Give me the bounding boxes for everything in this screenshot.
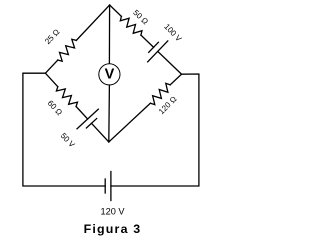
svg-text:120 V: 120 V xyxy=(100,207,125,217)
resistor 120Ω xyxy=(150,83,170,104)
wire xyxy=(141,35,154,47)
wire xyxy=(92,123,109,142)
wire xyxy=(76,107,88,120)
battery 100V xyxy=(148,41,168,62)
svg-text:25 Ω: 25 Ω xyxy=(43,27,61,46)
svg-text:V: V xyxy=(105,66,115,82)
wire xyxy=(108,85,111,142)
wire xyxy=(23,73,105,186)
wire xyxy=(158,51,182,74)
resistor 60Ω xyxy=(56,87,77,107)
resistor 25Ω xyxy=(58,39,77,61)
svg-text:50 Ω: 50 Ω xyxy=(131,8,150,26)
wire xyxy=(111,74,199,186)
resistor 50Ω xyxy=(120,16,142,35)
wire xyxy=(76,5,109,40)
wire xyxy=(108,5,110,64)
wire xyxy=(45,73,57,87)
svg-text:60 Ω: 60 Ω xyxy=(46,99,64,118)
wire xyxy=(109,103,151,142)
battery 120V xyxy=(105,172,111,201)
wire xyxy=(45,60,57,73)
svg-text:Figura 3: Figura 3 xyxy=(84,222,142,236)
wire xyxy=(110,5,122,16)
wire xyxy=(170,74,181,85)
svg-text:50 V: 50 V xyxy=(59,131,77,150)
voltmeter V xyxy=(99,64,120,85)
battery 50V xyxy=(77,109,98,129)
svg-text:100 V: 100 V xyxy=(162,22,183,44)
